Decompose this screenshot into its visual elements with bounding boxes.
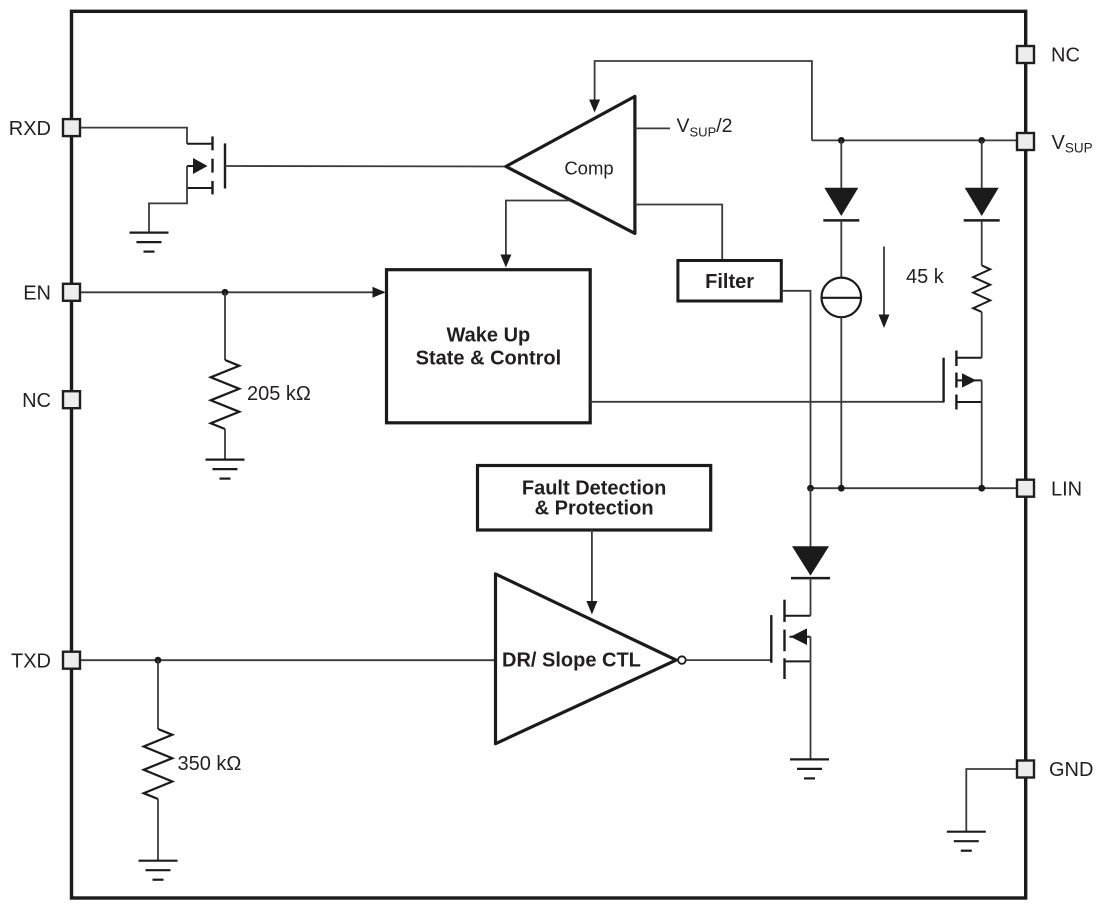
wire Comp lower output to Wake Up block (500, 201, 570, 268)
svg-text:LIN: LIN (1051, 478, 1082, 500)
wire R3 to M2 drain (981, 312, 983, 358)
pin VSUP (1017, 132, 1093, 156)
wire D3 to M3 drain (810, 578, 812, 616)
wire EN to Wake Up block (80, 287, 386, 298)
wire Comp feedback from VSUP (589, 61, 812, 140)
wire M1 gate to Comp output (225, 165, 507, 168)
pin RXD (9, 118, 80, 140)
pin GND (1017, 759, 1093, 781)
svg-text:Fault Detection: Fault Detection (522, 478, 666, 500)
ground (M3 source) (790, 759, 829, 778)
block Fault Detection & Protection (478, 466, 711, 531)
wire D2 to R3 (981, 220, 983, 265)
pin NC right (1017, 45, 1080, 67)
resistor R3 45 k (973, 265, 990, 312)
resistor R1 205 k (211, 360, 240, 429)
op-amp Comp (506, 96, 635, 233)
wire GND pin to ground (966, 769, 1017, 832)
svg-text:TXD: TXD (11, 650, 51, 672)
block Wake Up State & Control (387, 270, 591, 423)
resistor R2 350 k (144, 729, 173, 799)
svg-text:DR/ Slope CTL: DR/ Slope CTL (502, 650, 641, 672)
svg-text:VSUP/2: VSUP/2 (677, 115, 733, 140)
wire TXD junction down (157, 660, 159, 729)
wire bubble to M3 gate (686, 660, 772, 663)
wire EN junction down (224, 292, 226, 360)
wire TXD to driver (80, 659, 496, 661)
inverter bubble (678, 656, 686, 664)
transistor M2 (LIN pull-up FET) (944, 351, 982, 410)
svg-text:EN: EN (23, 283, 51, 305)
wire current source to LIN rail (840, 317, 842, 488)
diode D1 (823, 188, 859, 221)
ground (R1) (206, 460, 245, 479)
svg-text:RXD: RXD (9, 118, 51, 140)
wire Wake Up to M2 gate (590, 358, 943, 402)
wire R2 to ground (157, 799, 159, 861)
ground (GND pin) (947, 832, 986, 851)
node junction LIN c (978, 485, 985, 492)
transistor M1 (RXD pull-up FET) (149, 136, 225, 232)
node junction LIN a (807, 485, 814, 492)
node EN junction (222, 289, 229, 296)
wire Filter to LIN rail (781, 291, 810, 488)
wire Comp output to Filter (635, 205, 722, 261)
wire VSUP to D2 (981, 140, 983, 188)
wire LIN to D3 (810, 488, 812, 547)
svg-text:205 kΩ: 205 kΩ (247, 383, 311, 405)
transistor M3 (LIN driver FET) (771, 600, 810, 679)
wire LIN rail (811, 487, 1018, 489)
pin TXD (11, 650, 80, 672)
svg-text:State & Control: State & Control (416, 348, 562, 370)
wire VSUP to D1 (840, 140, 842, 188)
wire RXD to M1 drain (80, 128, 187, 144)
buffer DR/ Slope CTL (496, 574, 677, 744)
node VSUP/2 stub (635, 127, 670, 129)
svg-text:Comp: Comp (564, 158, 613, 179)
node TXD junction (155, 657, 162, 664)
svg-text:GND: GND (1049, 759, 1093, 781)
node junction VSUP right (978, 137, 985, 144)
diode D2 (964, 188, 1000, 221)
pin EN (23, 283, 80, 305)
ground (M1 source) (130, 233, 169, 252)
svg-text:NC: NC (1051, 45, 1080, 67)
svg-text:Filter: Filter (705, 271, 754, 293)
wire R1 to ground (224, 429, 226, 460)
svg-text:VSUP: VSUP (1052, 132, 1093, 156)
wire VSUP rail (812, 139, 1017, 141)
wire D1 to current source (840, 220, 842, 277)
svg-text:Wake Up: Wake Up (447, 325, 531, 347)
wire Fault block to driver (586, 530, 597, 615)
wire M2 source to LIN rail (981, 380, 983, 487)
svg-text:& Protection: & Protection (535, 498, 654, 520)
block Filter (678, 261, 781, 302)
node junction VSUP left (838, 137, 845, 144)
svg-text:45 k: 45 k (906, 266, 945, 288)
pin NC left (22, 390, 80, 412)
diode D3 (791, 546, 830, 578)
svg-text:350 kΩ: 350 kΩ (178, 753, 242, 775)
wire M3 source to ground (810, 637, 812, 760)
arrow 45 k current direction (879, 247, 890, 329)
current source I1 (822, 278, 862, 318)
node junction LIN b (838, 485, 845, 492)
svg-text:NC: NC (22, 390, 51, 412)
ground (R2) (139, 861, 178, 880)
pin LIN (1017, 478, 1082, 500)
